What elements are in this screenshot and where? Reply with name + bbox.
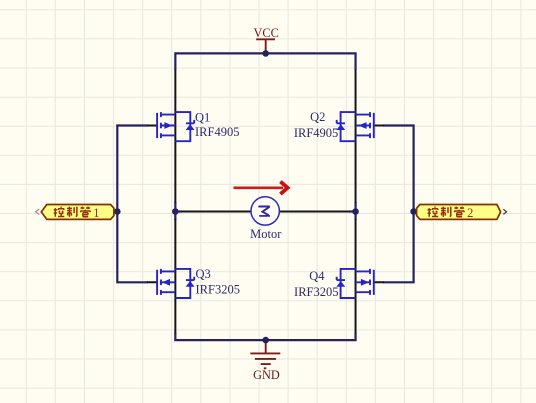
svg-text:Q2: Q2 (310, 110, 325, 124)
svg-text:GND: GND (253, 368, 280, 382)
svg-text:Q1: Q1 (195, 110, 210, 124)
svg-text:IRF3205: IRF3205 (294, 285, 338, 299)
svg-text:Q4: Q4 (309, 269, 325, 283)
svg-text:Q3: Q3 (196, 267, 211, 281)
svg-text:Motor: Motor (250, 227, 282, 241)
svg-text:IRF4905: IRF4905 (294, 126, 338, 140)
svg-text:2: 2 (467, 206, 473, 220)
svg-text:1: 1 (93, 206, 99, 220)
svg-text:IRF3205: IRF3205 (196, 283, 240, 297)
svg-text:VCC: VCC (254, 26, 279, 40)
svg-text:IRF4905: IRF4905 (195, 125, 239, 139)
